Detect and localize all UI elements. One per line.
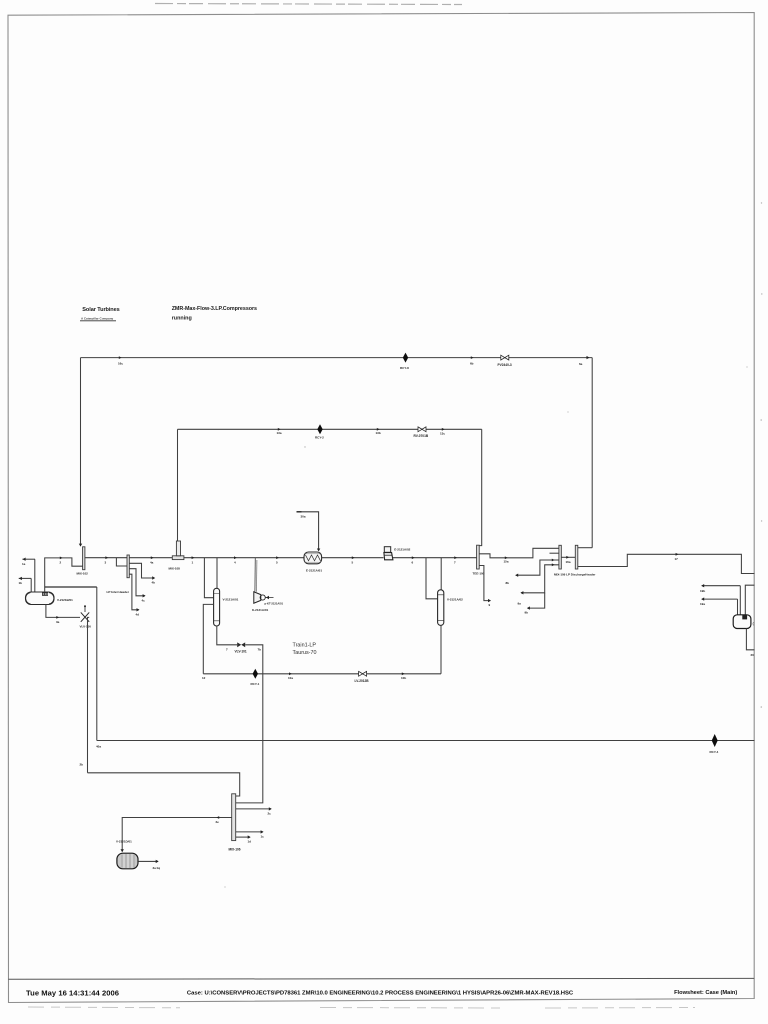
svg-text:LV-2012B: LV-2012B [355, 679, 370, 683]
svg-text:16c: 16c [118, 361, 123, 365]
svg-text:ZMR-Max-Flow-3.LP.Compressors: ZMR-Max-Flow-3.LP.Compressors [172, 306, 257, 312]
svg-text:13b: 13b [376, 431, 381, 435]
wire: inner loop right vertical to TEE-100 [479, 429, 482, 545]
svg-text:2b: 2b [80, 763, 84, 767]
wire: header branch 4b [129, 563, 154, 578]
vessel fuel gas drum at page edge [733, 615, 751, 629]
scan speckles right margin [224, 202, 762, 887]
svg-text:A Caterpillar Company: A Caterpillar Company [81, 317, 114, 321]
compressor E-2121A/02 symbol [384, 547, 390, 553]
svg-text:Flowsheet: Case (Main): Flowsheet: Case (Main) [674, 990, 737, 996]
svg-text:9: 9 [489, 603, 491, 607]
wire: inner loop top line [178, 428, 482, 430]
svg-text:RCY-8: RCY-8 [400, 366, 409, 370]
wire: TEE-100 to MIX-109 with steps [479, 548, 559, 558]
wire: dark line drum to long recycle down-line [45, 586, 97, 588]
compressor K-2121A/01 symbol [254, 592, 261, 603]
wire: VLV-100 outlet down to stream 2b line [88, 617, 90, 772]
valve LV-2012B [359, 671, 363, 676]
wire: lower line RCY-1 / LV-2012B [203, 673, 441, 675]
svg-text:2: 2 [60, 561, 62, 565]
scan artifact: faint broken line below bottom border [28, 1007, 695, 1008]
MIX-108 riser nozzle [176, 541, 180, 556]
svg-text:5: 5 [352, 560, 354, 564]
svg-text:19b: 19b [700, 589, 705, 593]
valve RCY-8 on outer loop [403, 353, 408, 363]
wire: MIX-109 inlet 9a [521, 565, 559, 593]
svg-text:1d: 1d [248, 840, 252, 844]
svg-text:6: 6 [412, 560, 414, 564]
valve VLV-100 (cross pattern) [81, 612, 89, 621]
wire: step into inlet header [116, 558, 127, 566]
wire: V-2121A/02 bottoms down to lower line [440, 625, 442, 673]
svg-text:V-2121A/01: V-2121A/01 [223, 597, 239, 601]
wire: long horizontal recycle line with RCY-4 [97, 740, 755, 742]
drum nozzle dark [742, 615, 747, 619]
wire: TEE-101 outlet right, across to page edge [578, 554, 755, 573]
wire: drum bottom to VLV-100 [46, 605, 80, 618]
cooler E-2121A/01 [304, 552, 322, 564]
svg-text:1: 1 [192, 560, 194, 564]
svg-text:19a: 19a [700, 602, 705, 606]
wire: outer loop right vertical [591, 358, 593, 548]
svg-text:30a: 30a [301, 515, 306, 519]
valve PV2440-3 on outer loop [501, 355, 505, 360]
svg-text:V-2121B/01: V-2121B/01 [57, 598, 73, 602]
svg-text:9a: 9a [518, 602, 522, 606]
svg-text:1a: 1a [22, 562, 26, 566]
energy stream 30a into cooler [302, 512, 319, 551]
svg-text:Case: U:\CONSERV\PROJECTS\PD78: Case: U:\CONSERV\PROJECTS\PD78361 ZMR\10… [187, 991, 574, 997]
valve RCY-1 [253, 669, 258, 679]
svg-text:Taurus-70: Taurus-70 [293, 650, 317, 656]
svg-text:RCY-2: RCY-2 [315, 436, 324, 440]
wire: stream 19a arrow [702, 598, 738, 600]
wire: main line header to MIX-108 [129, 557, 172, 559]
svg-text:running: running [172, 315, 192, 321]
svg-text:Tue May 16 14:31:44 2006: Tue May 16 14:31:44 2006 [26, 989, 119, 998]
svg-text:1b: 1b [19, 581, 23, 585]
wire: V-2121A/01 top vapour line [216, 558, 218, 589]
svg-text:E-2121A/01: E-2121A/01 [306, 568, 322, 572]
svg-text:1c: 1c [261, 835, 265, 839]
valve RCY-2 on inner loop [317, 424, 322, 434]
wire: outer loop top line [81, 357, 593, 359]
wire: stream 2b from VLV-100 to MIX-106 top [88, 773, 240, 796]
tee TEE-100 bar [477, 545, 480, 569]
svg-text:2e: 2e [216, 820, 220, 824]
vessel V-2121A/01 vertical [214, 588, 220, 626]
svg-text:TEE-100: TEE-100 [473, 571, 485, 575]
wire: TEE-100 bottom branch stream 9 [479, 566, 490, 601]
svg-text:5: 5 [276, 561, 278, 565]
vessel V-2121A/02 vertical [438, 590, 444, 626]
vessel V-2121B/01 horizontal drum [26, 592, 55, 605]
svg-text:RCY-4: RCY-4 [710, 750, 719, 754]
svg-text:p-KT-2121A/01: p-KT-2121A/01 [265, 602, 284, 606]
wire: main process line MIX-102 to inlet header [85, 557, 127, 559]
tee TEE-101 bar [575, 545, 578, 569]
wire: cooler outlet to K/E-2121A/02 [322, 557, 384, 559]
wire: MIX-109 inlet stub [550, 552, 559, 554]
wire: suction line down to compressor K-2121A/01 [254, 558, 256, 592]
mixer MIX-102 bar [83, 547, 85, 570]
svg-text:7: 7 [454, 560, 456, 564]
svg-text:RV-0701B: RV-0701B [414, 434, 429, 438]
svg-text:13c: 13c [440, 432, 445, 436]
wire: feed down to V-2121A/01 inlet [204, 558, 213, 598]
svg-text:8b: 8b [506, 581, 510, 585]
svg-text:Solar Turbines: Solar Turbines [82, 307, 119, 313]
wire: long vertical from dark line down [96, 587, 98, 741]
svg-text:7b: 7b [258, 648, 262, 652]
footer separator line [8, 977, 754, 980]
wire: down into V-2121A/02 inlet [426, 558, 438, 599]
wire: page-edge line to drum nozzle [745, 585, 754, 615]
wire: E-2121A/02 outlet to TEE-100 [393, 557, 477, 559]
wire: inner loop left vertical to MIX-108 [177, 429, 179, 541]
svg-text:RCY-1: RCY-1 [251, 682, 260, 686]
wire: MIX-106 outlet 1d [236, 836, 250, 838]
svg-text:PV2440-3: PV2440-3 [498, 363, 512, 367]
wire: lower-line riser into V-2121A/01 [203, 604, 213, 673]
wire: stream 2 drum overhead to MIX-102 [45, 558, 83, 592]
wire: MIX-109 to TEE-101 [561, 556, 575, 558]
valve RV-0701B on inner loop [418, 427, 422, 432]
wire: main line MIX-108 to cooler E-2121A/01 [184, 557, 304, 559]
svg-text:3a: 3a [56, 620, 60, 624]
wire: header branch 4c [129, 569, 145, 596]
svg-text:6a: 6a [579, 362, 583, 366]
svg-text:7: 7 [226, 648, 228, 652]
svg-text:V-2121A/02: V-2121A/02 [447, 597, 463, 601]
svg-text:MIX-109 LP DischargeHeader: MIX-109 LP DischargeHeader [554, 573, 596, 577]
svg-text:4d: 4d [136, 612, 140, 616]
stream 1b feed arrow [19, 577, 32, 579]
svg-text:Train1-LP: Train1-LP [293, 642, 317, 648]
svg-text:20: 20 [751, 653, 755, 657]
valve RCY-4 [712, 734, 718, 747]
svg-text:E-2121A/02: E-2121A/02 [394, 548, 410, 552]
mixer MIX-109 bar [559, 545, 561, 569]
svg-text:4a: 4a [150, 560, 154, 564]
wire: MIX-106 liquid to drum V-2121D/01 [122, 818, 232, 852]
wire: VLV-101 outlet down to MIX-106 [236, 645, 263, 803]
svg-text:MIX-102: MIX-102 [77, 572, 89, 576]
wire: MIX-106 outlet 2c [236, 808, 271, 810]
svg-text:VLV-100: VLV-100 [80, 624, 92, 628]
wire: V-2121A/01 bottoms to VLV-101 [217, 626, 237, 645]
scan artifact: faint dark streak along very top edge [155, 4, 462, 5]
svg-text:12: 12 [202, 676, 206, 680]
stream 1a feed arrow [22, 558, 35, 560]
svg-text:MIX-108: MIX-108 [169, 566, 181, 570]
svg-text:9b: 9b [525, 611, 529, 615]
wire: MIX-109 inlet 8b [516, 560, 559, 575]
wire: MIX-106 outlet 1c [236, 831, 263, 833]
wire: V-2121A/02 top line [440, 558, 442, 590]
energy stream into K-2121A/01 [265, 597, 273, 599]
svg-text:15a: 15a [504, 560, 509, 564]
wire: drum bottoms to page edge [746, 629, 754, 650]
svg-text:16a: 16a [566, 560, 571, 564]
wire: drum outlet 3a liq [138, 860, 158, 862]
svg-text:6b: 6b [470, 361, 474, 365]
svg-text:10b: 10b [401, 676, 406, 680]
wire: outer loop left vertical into MIX-102 [80, 358, 82, 546]
svg-text:VLV-101: VLV-101 [235, 649, 247, 653]
svg-text:13a: 13a [277, 431, 282, 435]
svg-text:2c: 2c [268, 811, 272, 815]
svg-text:K-2121A/01: K-2121A/01 [252, 608, 269, 612]
svg-text:V-2121D/01: V-2121D/01 [116, 840, 132, 844]
wire: stream 19b arrow [702, 585, 741, 587]
svg-text:4c: 4c [142, 598, 146, 602]
drum top nozzle [42, 592, 48, 596]
mixer MIX-106 bar [232, 794, 236, 841]
tee LP Inlet Header bar [127, 555, 129, 578]
svg-text:4: 4 [234, 561, 236, 565]
svg-text:LP Inlet Header: LP Inlet Header [107, 590, 130, 594]
svg-text:3a liq: 3a liq [153, 866, 161, 870]
svg-text:17: 17 [675, 557, 679, 561]
svg-text:10a: 10a [288, 676, 293, 680]
svg-text:4b: 4b [152, 581, 156, 585]
svg-text:MIX-106: MIX-106 [229, 847, 241, 851]
svg-text:3: 3 [105, 560, 107, 564]
wire: branch 9b [528, 593, 545, 608]
svg-text:40a: 40a [96, 745, 101, 749]
wire: header branch 4d [129, 574, 139, 610]
mixer MIX-108 bar [172, 556, 184, 560]
valve VLV-101 [237, 642, 241, 647]
vessel V-2121D/01 shaded drum [117, 853, 138, 869]
